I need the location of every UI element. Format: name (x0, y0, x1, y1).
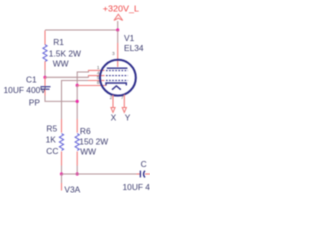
anode bar (107, 67, 128, 69)
resistor R1 (43, 31, 47, 71)
wire R6 bottom (76, 166, 78, 175)
junction at B+ / anode (116, 28, 119, 31)
svg-text:150 2W: 150 2W (79, 136, 108, 146)
grid g2 dashes (106, 75, 128, 77)
svg-text:10UF 400V: 10UF 400V (123, 182, 151, 192)
svg-text:C1: C1 (26, 75, 37, 85)
heater (112, 86, 121, 90)
svg-text:R6: R6 (80, 126, 91, 136)
junction screen node (43, 76, 46, 79)
grid g3 dashes (106, 70, 128, 72)
wire R5 bottom (61, 166, 63, 175)
pin V3A stub red (61, 183, 63, 191)
wire B+ horizontal (45, 29, 118, 31)
svg-text:V3A: V3A (64, 185, 80, 193)
wire g1 L down (62, 81, 89, 120)
svg-text:V1: V1 (124, 33, 135, 43)
arrow Y (122, 108, 126, 113)
pin C? left (137, 173, 141, 175)
capacitor C? plate (139, 171, 141, 178)
svg-text:C: C (141, 159, 147, 169)
svg-text:1K: 1K (46, 134, 57, 144)
resistor R5 (59, 119, 63, 166)
svg-text:3: 3 (112, 51, 115, 56)
svg-text:+320V_L: +320V_L (103, 3, 140, 13)
arrow X (111, 108, 115, 113)
capacitor C1 (41, 77, 51, 95)
svg-text:X: X (111, 112, 117, 122)
svg-text:R5: R5 (46, 124, 57, 134)
pin anode (pin 3) (117, 43, 119, 67)
svg-text:1.5K 2W: 1.5K 2W (49, 48, 81, 58)
net +320V_L power arrow (114, 14, 123, 30)
svg-text:1: 1 (97, 65, 100, 70)
wire V3A stub (61, 174, 63, 183)
svg-text:WW: WW (53, 58, 69, 68)
svg-text:CC: CC (46, 146, 58, 156)
resistor R6 (75, 119, 79, 166)
wire g3 L to cathode (77, 70, 89, 85)
wire cathode down to R6 (76, 85, 78, 119)
junction cathode/g3 (76, 84, 79, 87)
pin g1 (pin 5) (88, 80, 105, 82)
capacitor C? curved plate (144, 171, 145, 178)
cathode bar (106, 83, 126, 85)
wire R1 to screen node (44, 70, 46, 77)
svg-text:WW: WW (80, 147, 96, 157)
wire g2 horizontal (45, 76, 89, 78)
svg-text:EL34: EL34 (124, 43, 144, 53)
pin cathode (pin 8) (77, 85, 106, 87)
wire anode drop (117, 30, 119, 43)
svg-text:2: 2 (110, 95, 113, 100)
pin heater right (pin 7) (123, 95, 125, 108)
junction C1/cathode (76, 100, 79, 103)
pin heater left (pin 2) (112, 95, 114, 107)
pin g2 (pin 4) (88, 75, 105, 77)
svg-text:7: 7 (121, 95, 124, 100)
svg-text:PP: PP (29, 97, 41, 107)
svg-text:10UF 400V: 10UF 400V (4, 85, 47, 95)
tube V1 envelope (100, 60, 136, 96)
pin g3 (pin 1) (88, 69, 105, 71)
junction R6 bottom (76, 172, 79, 175)
wire C1 bottom to cathode line (45, 96, 77, 102)
pin C? right (145, 173, 150, 175)
junction R5 bottom (60, 172, 63, 175)
svg-text:R1: R1 (53, 37, 64, 47)
wire bottom bus (62, 173, 137, 175)
svg-text:Y: Y (125, 112, 131, 122)
grid g1 dashes (106, 79, 128, 81)
